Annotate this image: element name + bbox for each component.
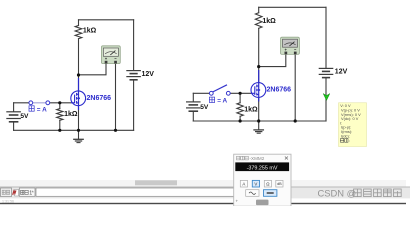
svg-text:A: A — [242, 181, 245, 186]
svg-text:1kΩ: 1kΩ — [83, 28, 97, 35]
svg-text:= A: = A — [217, 98, 227, 105]
svg-text:= A: = A — [37, 106, 47, 113]
svg-text:5V: 5V — [20, 113, 29, 120]
svg-text:1kΩ: 1kΩ — [244, 107, 258, 114]
svg-text:12V: 12V — [335, 69, 348, 76]
svg-text:12V: 12V — [142, 71, 155, 78]
svg-text:+: + — [236, 198, 239, 203]
svg-text:-379.255 mV: -379.255 mV — [247, 165, 278, 171]
svg-text:2N6766: 2N6766 — [87, 95, 112, 102]
svg-text:CSDN @: CSDN @ — [318, 187, 357, 198]
svg-text:1kΩ: 1kΩ — [64, 111, 78, 118]
svg-text:2N6766: 2N6766 — [267, 86, 292, 93]
svg-text:V(dc): 0 V: V(dc): 0 V — [341, 116, 359, 121]
svg-text:dB: dB — [277, 182, 282, 186]
svg-text::: : — [349, 138, 350, 143]
svg-text:V: V — [254, 181, 257, 186]
svg-text:*: * — [32, 190, 34, 196]
svg-text:-XMM2: -XMM2 — [250, 156, 265, 161]
svg-text:5V: 5V — [200, 104, 209, 111]
svg-text:1kΩ: 1kΩ — [262, 18, 276, 25]
